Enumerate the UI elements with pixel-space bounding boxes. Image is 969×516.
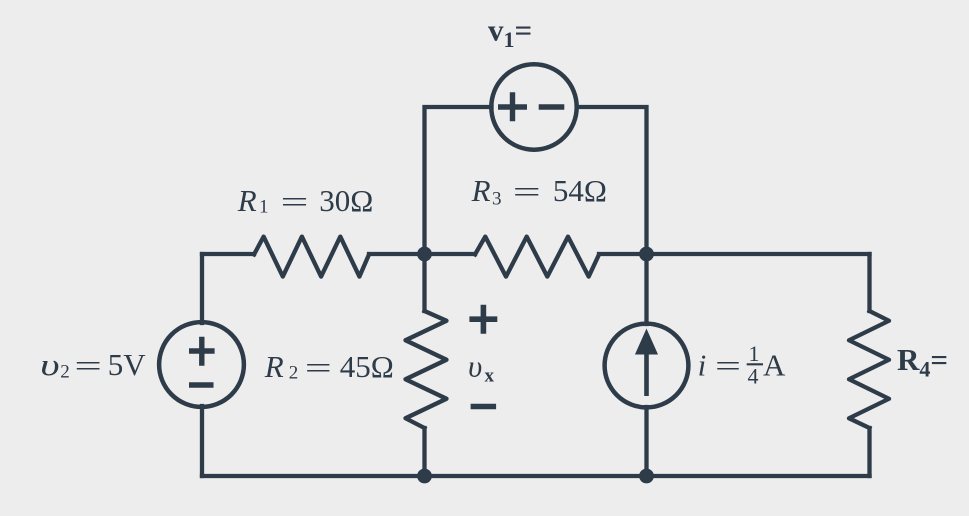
wire: R3 to node B and right to R4 branch xyxy=(599,252,870,256)
junction node A (top) xyxy=(417,247,432,262)
label R1 = 30 ohm xyxy=(237,183,374,219)
svg-text:5V: 5V xyxy=(108,347,147,382)
v2 minus sign xyxy=(189,382,214,387)
label R3 = 54 ohm xyxy=(471,173,607,210)
wire: R1 to node A xyxy=(369,252,475,256)
wire: right branch down to R4 xyxy=(867,254,871,311)
svg-text:30Ω: 30Ω xyxy=(319,183,373,218)
svg-text:3: 3 xyxy=(492,189,502,210)
v1 minus sign xyxy=(539,104,565,109)
svg-text:R: R xyxy=(264,349,284,384)
wire: R4 to bottom rail xyxy=(867,428,871,476)
v2 plus sign xyxy=(189,337,215,366)
wire: bottom rail xyxy=(202,474,870,478)
svg-text:=: = xyxy=(715,348,741,383)
svg-text:1: 1 xyxy=(259,197,269,218)
svg-text:4: 4 xyxy=(748,364,759,389)
svg-text:2: 2 xyxy=(289,363,299,384)
label v2 = 5V xyxy=(40,347,146,383)
resistor R3 xyxy=(475,237,599,277)
label R2 = 45 ohm xyxy=(264,349,394,385)
wire: node B down to current source xyxy=(644,254,648,324)
svg-text:R: R xyxy=(471,173,491,208)
wire: current source bottom to bottom rail xyxy=(644,407,648,476)
voltage source v2 circle xyxy=(159,322,244,407)
wire: v1 loop right side xyxy=(577,107,647,254)
wire: middle horizontal left segment (node between v2 and R1) xyxy=(202,252,254,256)
resistor R4 xyxy=(849,311,889,428)
svg-text:=: = xyxy=(74,348,102,383)
svg-text:x: x xyxy=(485,366,495,387)
svg-text:=: = xyxy=(513,174,541,209)
svg-text:i: i xyxy=(698,347,707,382)
junction node A' (bottom) xyxy=(417,469,432,484)
svg-text:2: 2 xyxy=(60,362,69,383)
label vx xyxy=(468,349,495,387)
resistor R1 xyxy=(254,237,369,277)
junction node B' (bottom) xyxy=(639,469,654,484)
resistor R2 xyxy=(406,311,447,428)
wire: v2 bottom to bottom rail xyxy=(200,406,204,476)
svg-text:A: A xyxy=(763,347,786,382)
current source I1 circle xyxy=(605,324,689,408)
svg-text:1: 1 xyxy=(749,341,760,366)
svg-text:R4=: R4= xyxy=(897,342,948,382)
v1 plus sign xyxy=(498,92,527,121)
svg-text:υ: υ xyxy=(40,347,60,382)
wire: node A down to R2 xyxy=(422,254,426,311)
svg-text:54Ω: 54Ω xyxy=(553,173,607,208)
svg-text:45Ω: 45Ω xyxy=(340,349,394,384)
vx minus sign xyxy=(471,404,497,410)
svg-text:=: = xyxy=(281,184,309,219)
svg-text:υ: υ xyxy=(468,349,482,384)
label i = 1/4 A xyxy=(698,341,786,389)
svg-text:=: = xyxy=(305,350,332,385)
svg-text:v1=: v1= xyxy=(488,13,532,53)
wire: R2 to bottom rail xyxy=(422,428,426,476)
current source arrow xyxy=(637,331,657,396)
vx plus sign xyxy=(469,305,497,334)
svg-text:R: R xyxy=(237,183,257,218)
junction node B (top) xyxy=(639,247,654,262)
wire: v1 loop left vertical xyxy=(425,107,492,254)
wire: left branch down from middle wire to source v2 xyxy=(200,254,204,323)
voltage source v1 circle xyxy=(491,64,576,149)
